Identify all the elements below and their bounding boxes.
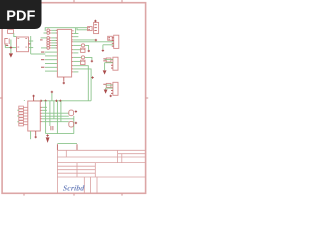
U3 right pin nubs [40, 107, 42, 121]
title block [57, 150, 145, 193]
connector SV4 [106, 82, 118, 95]
crystal Q1 [5, 39, 9, 45]
junction [110, 95, 112, 97]
svg-text:PDF: PDF [6, 8, 35, 24]
junction [10, 46, 13, 49]
wire horizontal bus [34, 100, 92, 102]
wire bus down [73, 66, 91, 101]
ground arrow [9, 53, 13, 57]
U3 top pin [33, 97, 35, 101]
wire [105, 60, 113, 71]
frame ticks [0, 0, 148, 196]
junctions on bus [40, 100, 62, 102]
wire stack left [41, 33, 47, 48]
svg-text:Scribd: Scribd [62, 183, 84, 192]
wire top rail [45, 28, 87, 31]
wire [106, 85, 113, 89]
junction [91, 76, 93, 78]
green nubs [17, 100, 24, 122]
ground arrow [104, 90, 108, 94]
U1 right pins [73, 28, 95, 72]
U3 right pins [42, 107, 74, 121]
net labels [41, 52, 44, 68]
pin nub [72, 30, 74, 32]
connector SV2 [108, 35, 119, 48]
resistor R1 [8, 30, 14, 34]
wire [73, 57, 92, 61]
stub up with cap [51, 93, 53, 101]
pad group P1 [81, 44, 84, 47]
wire verticals down [46, 101, 61, 134]
U3 left pins [23, 107, 27, 124]
junction [46, 134, 48, 136]
U3 bottom wires [30, 131, 32, 139]
U1 bottom pin [63, 77, 65, 82]
connector stack X2 [19, 106, 24, 126]
U1 right pin nubs [72, 34, 74, 72]
connector stack SV1 pads [47, 29, 50, 49]
transistor Q3 [69, 121, 74, 127]
pin numbers [17, 38, 27, 48]
pin nub [29, 43, 31, 45]
connector X1 (top) [88, 22, 99, 33]
wire [73, 45, 88, 49]
junction [94, 20, 96, 22]
IC U3 [28, 101, 41, 131]
connector SV3 [106, 57, 118, 70]
ground arrow [46, 137, 50, 143]
pad group P2 [81, 56, 84, 59]
ground arrow [103, 70, 107, 74]
red stubs into U3 bottom [51, 126, 53, 130]
wire bottom rail [46, 133, 74, 135]
wire [29, 36, 46, 54]
wire to SV2 [73, 42, 113, 50]
wire near title block [57, 143, 77, 145]
U1 left pin nubs [56, 30, 58, 48]
PDF badge [0, 0, 42, 29]
wire [14, 33, 17, 37]
junction [102, 49, 104, 51]
net label [40, 39, 43, 40]
junction [63, 82, 65, 84]
transistor Q2 [69, 110, 74, 116]
wire stack to IC [51, 30, 57, 48]
frame border [2, 3, 146, 194]
junction [95, 39, 97, 42]
pad nubs [50, 30, 52, 48]
U1 lower-left pins [45, 52, 57, 71]
op-amp U2 box [17, 37, 29, 52]
junction [88, 50, 90, 52]
microcontroller U1 [57, 29, 71, 77]
junction [91, 60, 93, 62]
wire [5, 40, 16, 54]
label [6, 45, 9, 46]
loop vertical [73, 116, 75, 134]
